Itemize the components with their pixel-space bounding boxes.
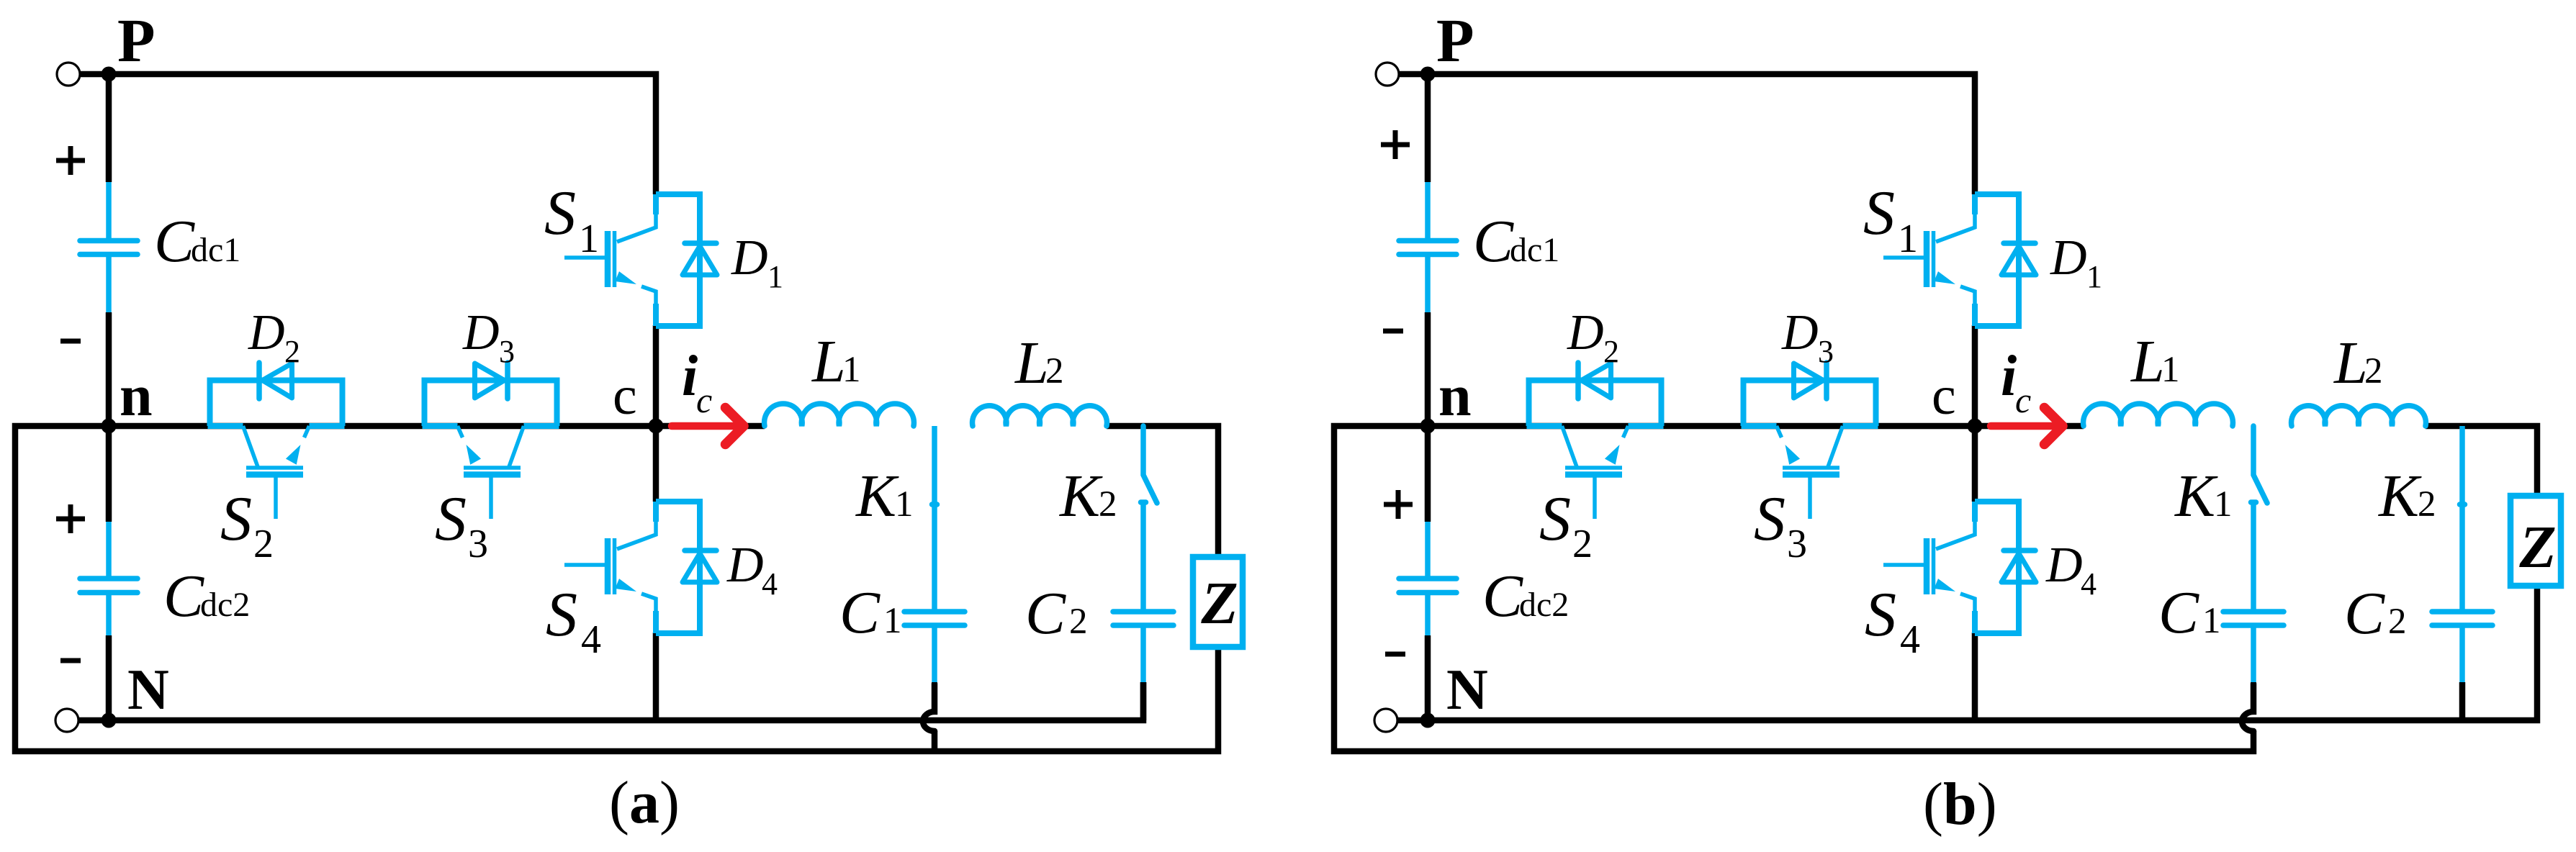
svg-text:3: 3 [499, 334, 515, 369]
svg-text:1: 1 [1898, 217, 1918, 261]
svg-text:3: 3 [468, 522, 488, 566]
svg-text:K: K [855, 463, 899, 530]
svg-text:S: S [546, 580, 577, 650]
svg-text:1: 1 [2161, 350, 2180, 390]
svg-text:D: D [248, 305, 285, 361]
svg-text:1: 1 [2214, 484, 2233, 525]
svg-text:2: 2 [1069, 602, 1088, 642]
svg-text:C: C [1025, 580, 1066, 647]
svg-text:i: i [2001, 345, 2017, 408]
svg-text:n: n [1438, 363, 1472, 428]
svg-text:dc1: dc1 [1510, 231, 1559, 269]
svg-text:c: c [1932, 366, 1956, 426]
svg-text:L: L [1014, 330, 1049, 396]
svg-text:D: D [2045, 538, 2083, 593]
svg-text:L: L [2333, 330, 2368, 396]
svg-text:1: 1 [842, 350, 861, 390]
svg-text:Z: Z [2518, 514, 2556, 581]
svg-text:3: 3 [1818, 334, 1834, 369]
svg-text:dc2: dc2 [1519, 586, 1569, 624]
svg-text:1: 1 [579, 217, 599, 261]
svg-text:n: n [120, 363, 153, 428]
svg-text:1: 1 [2086, 259, 2102, 294]
svg-text:4: 4 [581, 617, 601, 662]
svg-text:2: 2 [1099, 484, 1117, 525]
svg-text:1: 1 [895, 484, 914, 525]
svg-text:2: 2 [1572, 522, 1593, 566]
svg-text:2: 2 [1603, 334, 1619, 369]
svg-text:D: D [1781, 305, 1819, 361]
svg-text:1: 1 [2202, 601, 2221, 641]
svg-text:1: 1 [883, 601, 902, 641]
svg-text:D: D [731, 230, 768, 286]
svg-text:4: 4 [762, 566, 778, 602]
svg-text:i: i [682, 345, 698, 408]
svg-text:c: c [613, 366, 637, 426]
svg-text:D: D [2050, 230, 2087, 286]
svg-text:L: L [811, 328, 846, 395]
svg-text:S: S [220, 484, 252, 554]
svg-text:N: N [127, 658, 169, 722]
svg-text:P: P [1436, 6, 1474, 75]
svg-text:S: S [544, 178, 576, 248]
svg-text:dc2: dc2 [200, 586, 250, 624]
svg-text:Z: Z [1200, 570, 1238, 637]
svg-text:dc1: dc1 [191, 231, 240, 269]
svg-text:2: 2 [2388, 602, 2407, 642]
svg-text:c: c [696, 380, 712, 420]
svg-text:C: C [1482, 563, 1523, 630]
svg-text:K: K [2378, 463, 2422, 530]
svg-text:(a): (a) [609, 769, 680, 836]
svg-text:C: C [163, 563, 204, 630]
svg-text:S: S [1539, 484, 1571, 554]
svg-text:C: C [154, 208, 195, 275]
svg-text:C: C [1473, 208, 1514, 275]
svg-text:C: C [2344, 580, 2385, 647]
svg-text:N: N [1446, 658, 1488, 722]
svg-text:K: K [1059, 463, 1103, 530]
svg-text:2: 2 [284, 334, 300, 369]
svg-text:S: S [1865, 580, 1896, 650]
svg-text:3: 3 [1787, 522, 1807, 566]
svg-text:C: C [839, 579, 881, 646]
svg-text:C: C [2158, 579, 2199, 646]
svg-text:D: D [726, 538, 764, 593]
svg-text:P: P [117, 6, 156, 75]
svg-text:1: 1 [767, 259, 783, 294]
svg-text:D: D [462, 305, 500, 361]
svg-text:S: S [435, 484, 467, 554]
svg-text:2: 2 [253, 522, 274, 566]
svg-text:2: 2 [2364, 351, 2383, 391]
svg-text:c: c [2015, 380, 2031, 420]
svg-text:2: 2 [2418, 484, 2436, 525]
svg-text:S: S [1863, 178, 1895, 248]
svg-text:4: 4 [1900, 617, 1920, 662]
svg-text:4: 4 [2081, 566, 2097, 602]
svg-text:S: S [1754, 484, 1785, 554]
svg-text:L: L [2130, 328, 2165, 395]
svg-text:K: K [2174, 463, 2218, 530]
svg-text:D: D [1567, 305, 1604, 361]
svg-text:2: 2 [1045, 351, 1064, 391]
svg-text:(b): (b) [1923, 771, 1997, 838]
